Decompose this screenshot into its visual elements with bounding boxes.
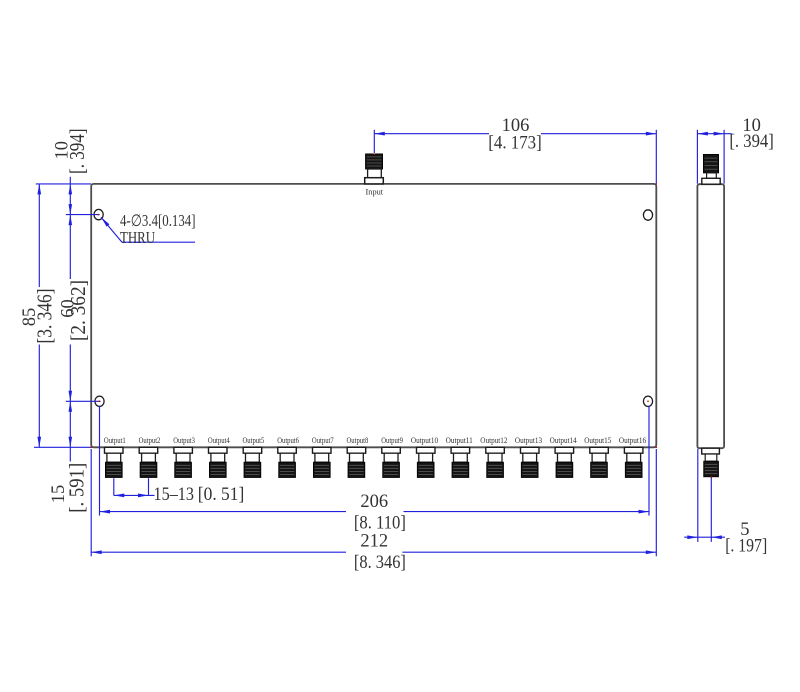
dim 5 line (side) [684,536,725,538]
dim 212 line [91,551,346,553]
dim 106 extension lines [373,130,375,153]
svg-text:15–13: 15–13 [154,485,195,505]
dim 10 extension lines (side) [696,130,698,184]
output connector J13 [521,447,540,477]
svg-text:[3. 346]: [3. 346] [33,289,57,344]
svg-text:[. 394]: [. 394] [729,132,774,152]
svg-text:[8. 346]: [8. 346] [354,553,406,573]
output connector J10 [417,447,436,477]
dim 10/60/15 line [69,177,71,279]
defpoints [374,154,375,155]
dim 85 line [38,184,40,287]
svg-text:Output13: Output13 [515,436,542,445]
hole top-left [94,209,103,219]
svg-text:Output5: Output5 [243,436,265,445]
output connector J5 [243,447,262,477]
extension line top edge left [36,183,91,185]
svg-text:[. 394]: [. 394] [65,128,89,174]
output connector J3 [174,447,193,477]
output connector J1 [105,447,124,477]
svg-text:Output6: Output6 [277,436,299,445]
svg-text:Input: Input [366,186,384,196]
svg-text:[8. 110]: [8. 110] [354,513,406,533]
plate side view outline [697,184,724,448]
dim 212 extension lines [90,449,92,556]
svg-text:Output10: Output10 [411,436,438,445]
svg-text:Output3: Output3 [173,436,195,445]
plate front view outline [91,184,656,447]
svg-text:[. 197]: [. 197] [725,536,767,556]
dim 5 extension lines (side) [697,449,699,542]
output connector J16 [624,447,643,477]
dim 15-13 line [114,494,155,496]
output connector J9 [382,447,401,477]
hole bottom-right [643,396,652,406]
svg-text:Output9: Output9 [381,436,403,445]
hole bottom-left [95,396,104,406]
side view output connector (bottom) [702,448,720,477]
svg-text:[0. 51]: [0. 51] [198,485,245,505]
svg-text:Output11: Output11 [446,436,473,445]
svg-text:Output15: Output15 [584,436,611,445]
dim 206 extension lines [99,406,101,516]
svg-text:Output4: Output4 [208,436,230,445]
output connector J11 [451,447,470,477]
hole callout leader [101,217,122,242]
svg-text:212: 212 [360,531,388,551]
extension line bottom edge left [34,446,91,448]
dim 206 line [100,511,347,513]
svg-text:Output14: Output14 [550,436,577,445]
dim 15-13 drop lines [113,478,115,495]
side view input connector (top) [702,154,720,184]
svg-text:Output8: Output8 [347,436,369,445]
output connector J12 [486,447,505,477]
output connector J4 [209,447,228,477]
output connector J14 [555,447,574,477]
input connector J-IN [365,154,384,184]
svg-text:Output7: Output7 [312,436,334,445]
svg-text:[2. 362]: [2. 362] [66,280,90,341]
centerline bottom-left hole [66,400,101,402]
output connector J7 [313,447,332,477]
svg-text:THRU: THRU [120,228,155,247]
svg-text:206: 206 [360,492,388,512]
svg-text:[. 591]: [. 591] [65,463,89,513]
output connector J6 [278,447,297,477]
output connector J8 [347,447,366,477]
hole top-right [643,210,652,220]
output connector J2 [139,447,158,477]
svg-text:Output2: Output2 [139,436,161,445]
dim 106 line [374,133,489,135]
svg-text:Output16: Output16 [619,436,646,445]
output connector J15 [590,447,609,477]
dim 10 line (side) [697,133,731,135]
svg-text:Output1: Output1 [104,436,126,445]
centerline top-left hole [66,214,100,216]
svg-text:Output12: Output12 [480,436,507,445]
svg-text:[4. 173]: [4. 173] [488,134,542,154]
